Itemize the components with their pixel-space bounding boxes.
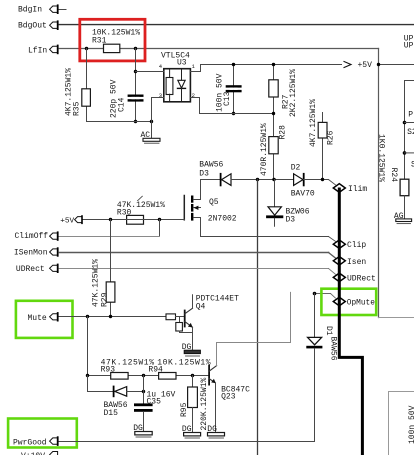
svg-text:Q5: Q5: [209, 198, 219, 207]
svg-text:1K0.125W1%: 1K0.125W1%: [376, 134, 385, 182]
wire bottom AC line: [87, 121, 152, 123]
svg-text:+5V: +5V: [60, 217, 74, 225]
capacitor C35: [134, 376, 176, 432]
wire LfIn horizontal: [59, 48, 379, 50]
wire ISenMon line: [59, 252, 329, 254]
svg-text:2N7002: 2N7002: [208, 215, 237, 224]
wire U3 pin4: [136, 71, 164, 73]
green box OpMute: [321, 289, 376, 315]
svg-text:UDRect: UDRect: [347, 274, 376, 283]
svg-text:D1: D1: [324, 326, 333, 336]
resistor R30: [117, 196, 165, 224]
resistor R24: [376, 134, 409, 196]
svg-text:LfIn: LfIn: [28, 46, 47, 55]
node C14 bottom: [134, 120, 137, 123]
node C14 top junction: [134, 70, 137, 73]
wire pointer Clip: [329, 237, 336, 242]
svg-text:UDRect: UDRect: [16, 265, 45, 274]
wire pointer Ilim: [329, 180, 336, 185]
svg-text:Ilim: Ilim: [348, 185, 367, 194]
diamond OpMute: [333, 297, 375, 308]
wire C13 column: [233, 65, 235, 114]
wire R26 column: [322, 113, 324, 180]
svg-text:BAW56: BAW56: [329, 337, 338, 361]
port BdgOut: [18, 21, 58, 30]
wire long vertical mid: [257, 180, 259, 455]
resistor R31: [92, 29, 140, 53]
transistor Q23 BC847C: [209, 366, 250, 402]
transistor Q4 PDTC144ET: [166, 295, 239, 333]
wire R29 column: [110, 220, 112, 317]
node C13 top: [232, 63, 235, 66]
svg-text:ISenMon: ISenMon: [14, 249, 48, 258]
diode D2 BAV70: [291, 163, 315, 198]
svg-text:Clip: Clip: [347, 241, 366, 250]
green box Mute: [16, 301, 73, 338]
port Mute: [28, 313, 58, 323]
svg-text:Mute: Mute: [28, 314, 47, 323]
resistor R29: [91, 259, 115, 307]
node R93 left: [86, 374, 89, 377]
wire +5V rail: [201, 64, 342, 66]
svg-text:S2: S2: [407, 128, 414, 137]
wire PwrGood line: [59, 441, 315, 443]
red highlight box: [80, 19, 145, 61]
svg-text:D3: D3: [199, 170, 209, 179]
wire Q5 drain up: [200, 180, 202, 200]
capacitor C13: [215, 73, 241, 112]
wire lower mid line: [200, 113, 274, 115]
wire D2 to Ilim: [304, 179, 329, 181]
wire D3 to D2: [231, 179, 294, 181]
wire R35 column: [86, 49, 88, 122]
resistor R93: [101, 358, 155, 379]
wire R93 R94 line: [88, 375, 210, 377]
wire Q23 collector rise: [290, 292, 292, 342]
power +5V left port: [60, 216, 82, 225]
svg-text:R24: R24: [389, 168, 398, 183]
node R94 right: [191, 374, 194, 377]
svg-text:C13: C13: [223, 91, 232, 106]
svg-text:Q23: Q23: [221, 393, 236, 402]
svg-text:R26: R26: [327, 130, 336, 145]
svg-text:C14: C14: [117, 97, 126, 112]
wire U3 pin2: [190, 98, 199, 114]
svg-text:R28: R28: [279, 125, 288, 140]
svg-text:220K.125W1%: 220K.125W1%: [200, 377, 209, 430]
ground DG Q4: [182, 343, 201, 356]
svg-text:2K2.125W1%: 2K2.125W1%: [289, 69, 298, 117]
wire U3 pin3: [152, 98, 164, 122]
port UDRect: [16, 265, 58, 274]
node R30 right: [158, 218, 161, 221]
port BdgIn: [18, 5, 58, 14]
wire pin S2: [405, 152, 414, 154]
wire Q4 collector: [192, 295, 194, 309]
port PwrGood: [13, 437, 58, 447]
right column wire: [405, 81, 414, 180]
node AC junction: [150, 120, 153, 123]
ground AC: [141, 131, 161, 143]
svg-text:47K.125W1%: 47K.125W1%: [91, 259, 100, 307]
wire Q23 collector path: [217, 343, 291, 366]
resistor R94: [148, 358, 211, 379]
resistor R28: [260, 123, 288, 176]
svg-text:PwrGood: PwrGood: [13, 438, 47, 447]
wire UDRect line: [59, 268, 329, 270]
wire Mute down branch: [87, 317, 89, 376]
transistor Q5 2N7002: [184, 196, 237, 224]
zener D3 BZW06: [266, 180, 310, 227]
node R27 top: [272, 63, 275, 66]
svg-text:10K.125W1%: 10K.125W1%: [157, 358, 211, 367]
port ClimOff: [15, 232, 58, 241]
wire right lower horizontal: [379, 317, 414, 319]
node mid D3-D2 (long vertical top): [256, 178, 259, 181]
wire Q23 emitter down: [215, 383, 217, 433]
wire BdgOut to right edge: [59, 24, 414, 26]
node R26 bottom junction: [321, 178, 324, 181]
diamond UDRect: [333, 273, 376, 283]
svg-text:4K7.125W1%: 4K7.125W1%: [309, 99, 318, 147]
wire +5V rail right: [379, 64, 414, 66]
svg-text:ClimOff: ClimOff: [15, 232, 49, 241]
svg-text:U3: U3: [177, 59, 187, 68]
wire U3 pin1: [190, 65, 200, 72]
ground DG C35: [133, 424, 152, 437]
diamond Clip: [333, 240, 366, 250]
node C35 top junction: [142, 390, 145, 393]
diode D3 BAW56: [199, 161, 231, 186]
svg-text:100n 50V: 100n 50V: [408, 405, 414, 444]
svg-text:D15: D15: [104, 409, 119, 418]
wire Mute line: [59, 316, 166, 318]
svg-text:UP: UP: [404, 41, 414, 50]
diamond Ilim: [333, 184, 367, 194]
port ISenMon: [14, 248, 58, 258]
node R31 left: [85, 47, 88, 50]
svg-text:470R.125W1%: 470R.125W1%: [260, 123, 269, 176]
wire pin P: [405, 122, 414, 124]
wire Q4 emitter: [192, 327, 194, 350]
resistor R27: [269, 69, 298, 117]
svg-text:R35: R35: [72, 101, 81, 116]
svg-text:Isen: Isen: [347, 258, 366, 267]
ground DG Q23: [207, 425, 224, 438]
resistor R35: [65, 68, 91, 116]
node R31 right: [134, 47, 137, 50]
diode D15 BAW56: [88, 376, 144, 418]
svg-text:BAW56: BAW56: [199, 161, 223, 170]
wire D3 left segment: [193, 180, 220, 200]
capacitor C14: [110, 79, 144, 118]
svg-text:BdgIn: BdgIn: [18, 5, 42, 14]
port LfIn: [28, 46, 58, 56]
svg-text:BAV70: BAV70: [291, 189, 315, 198]
node R93-R94: [142, 374, 145, 377]
wire BdgIn stub: [59, 9, 66, 11]
node +5V(2) junction: [109, 218, 112, 221]
port V+10V partial bottom: [21, 452, 58, 455]
svg-text:+5V: +5V: [358, 61, 373, 70]
wire LfIn vertical right: [378, 49, 380, 318]
resistor R95: [180, 376, 209, 433]
node R27 bottom: [272, 112, 275, 115]
svg-text:P: P: [408, 111, 413, 120]
wire C14 column: [135, 49, 137, 122]
wire R24 bottom: [404, 196, 406, 219]
node right pin P: [403, 121, 407, 125]
diode D1 BAW56 vertical: [306, 294, 337, 442]
opto-coupler U3 VTL5C4: [159, 52, 196, 102]
wire pointer UDRect: [329, 269, 336, 275]
wire R27 R28 column: [273, 65, 275, 180]
svg-text:BdgOut: BdgOut: [18, 21, 47, 30]
node +5V right: [377, 63, 380, 66]
svg-text:Q4: Q4: [196, 303, 206, 312]
resistor R26: [309, 99, 336, 147]
wire pointer Isen: [329, 253, 336, 259]
node OpMute junction: [313, 292, 317, 296]
diamond Isen: [333, 257, 366, 267]
ground AG: [394, 212, 412, 224]
wire OpMute dot to diamond: [315, 293, 331, 295]
wire pointer OpMute: [331, 294, 336, 299]
wire AC drop: [151, 122, 153, 139]
power +5V arrow: [344, 61, 372, 70]
green box PwrGood: [8, 419, 77, 448]
node R28 bottom junction: [272, 178, 275, 181]
bus thick: [339, 189, 362, 455]
ground DG R95: [182, 425, 201, 438]
svg-text:D3: D3: [286, 215, 296, 224]
node R29 bottom: [109, 315, 112, 318]
wire ClimOff horizontal: [58, 236, 160, 238]
node right pin S2: [403, 151, 407, 155]
wire Q5 source down: [201, 218, 329, 237]
wire gate line: [83, 219, 185, 221]
node Mute branch: [86, 315, 89, 318]
svg-text:OpMute: OpMute: [347, 300, 375, 308]
svg-text:D2: D2: [291, 163, 301, 172]
node C13 bottom: [232, 112, 235, 115]
wire ClimOff jog: [159, 220, 161, 237]
block edge bottom right: [389, 392, 414, 455]
